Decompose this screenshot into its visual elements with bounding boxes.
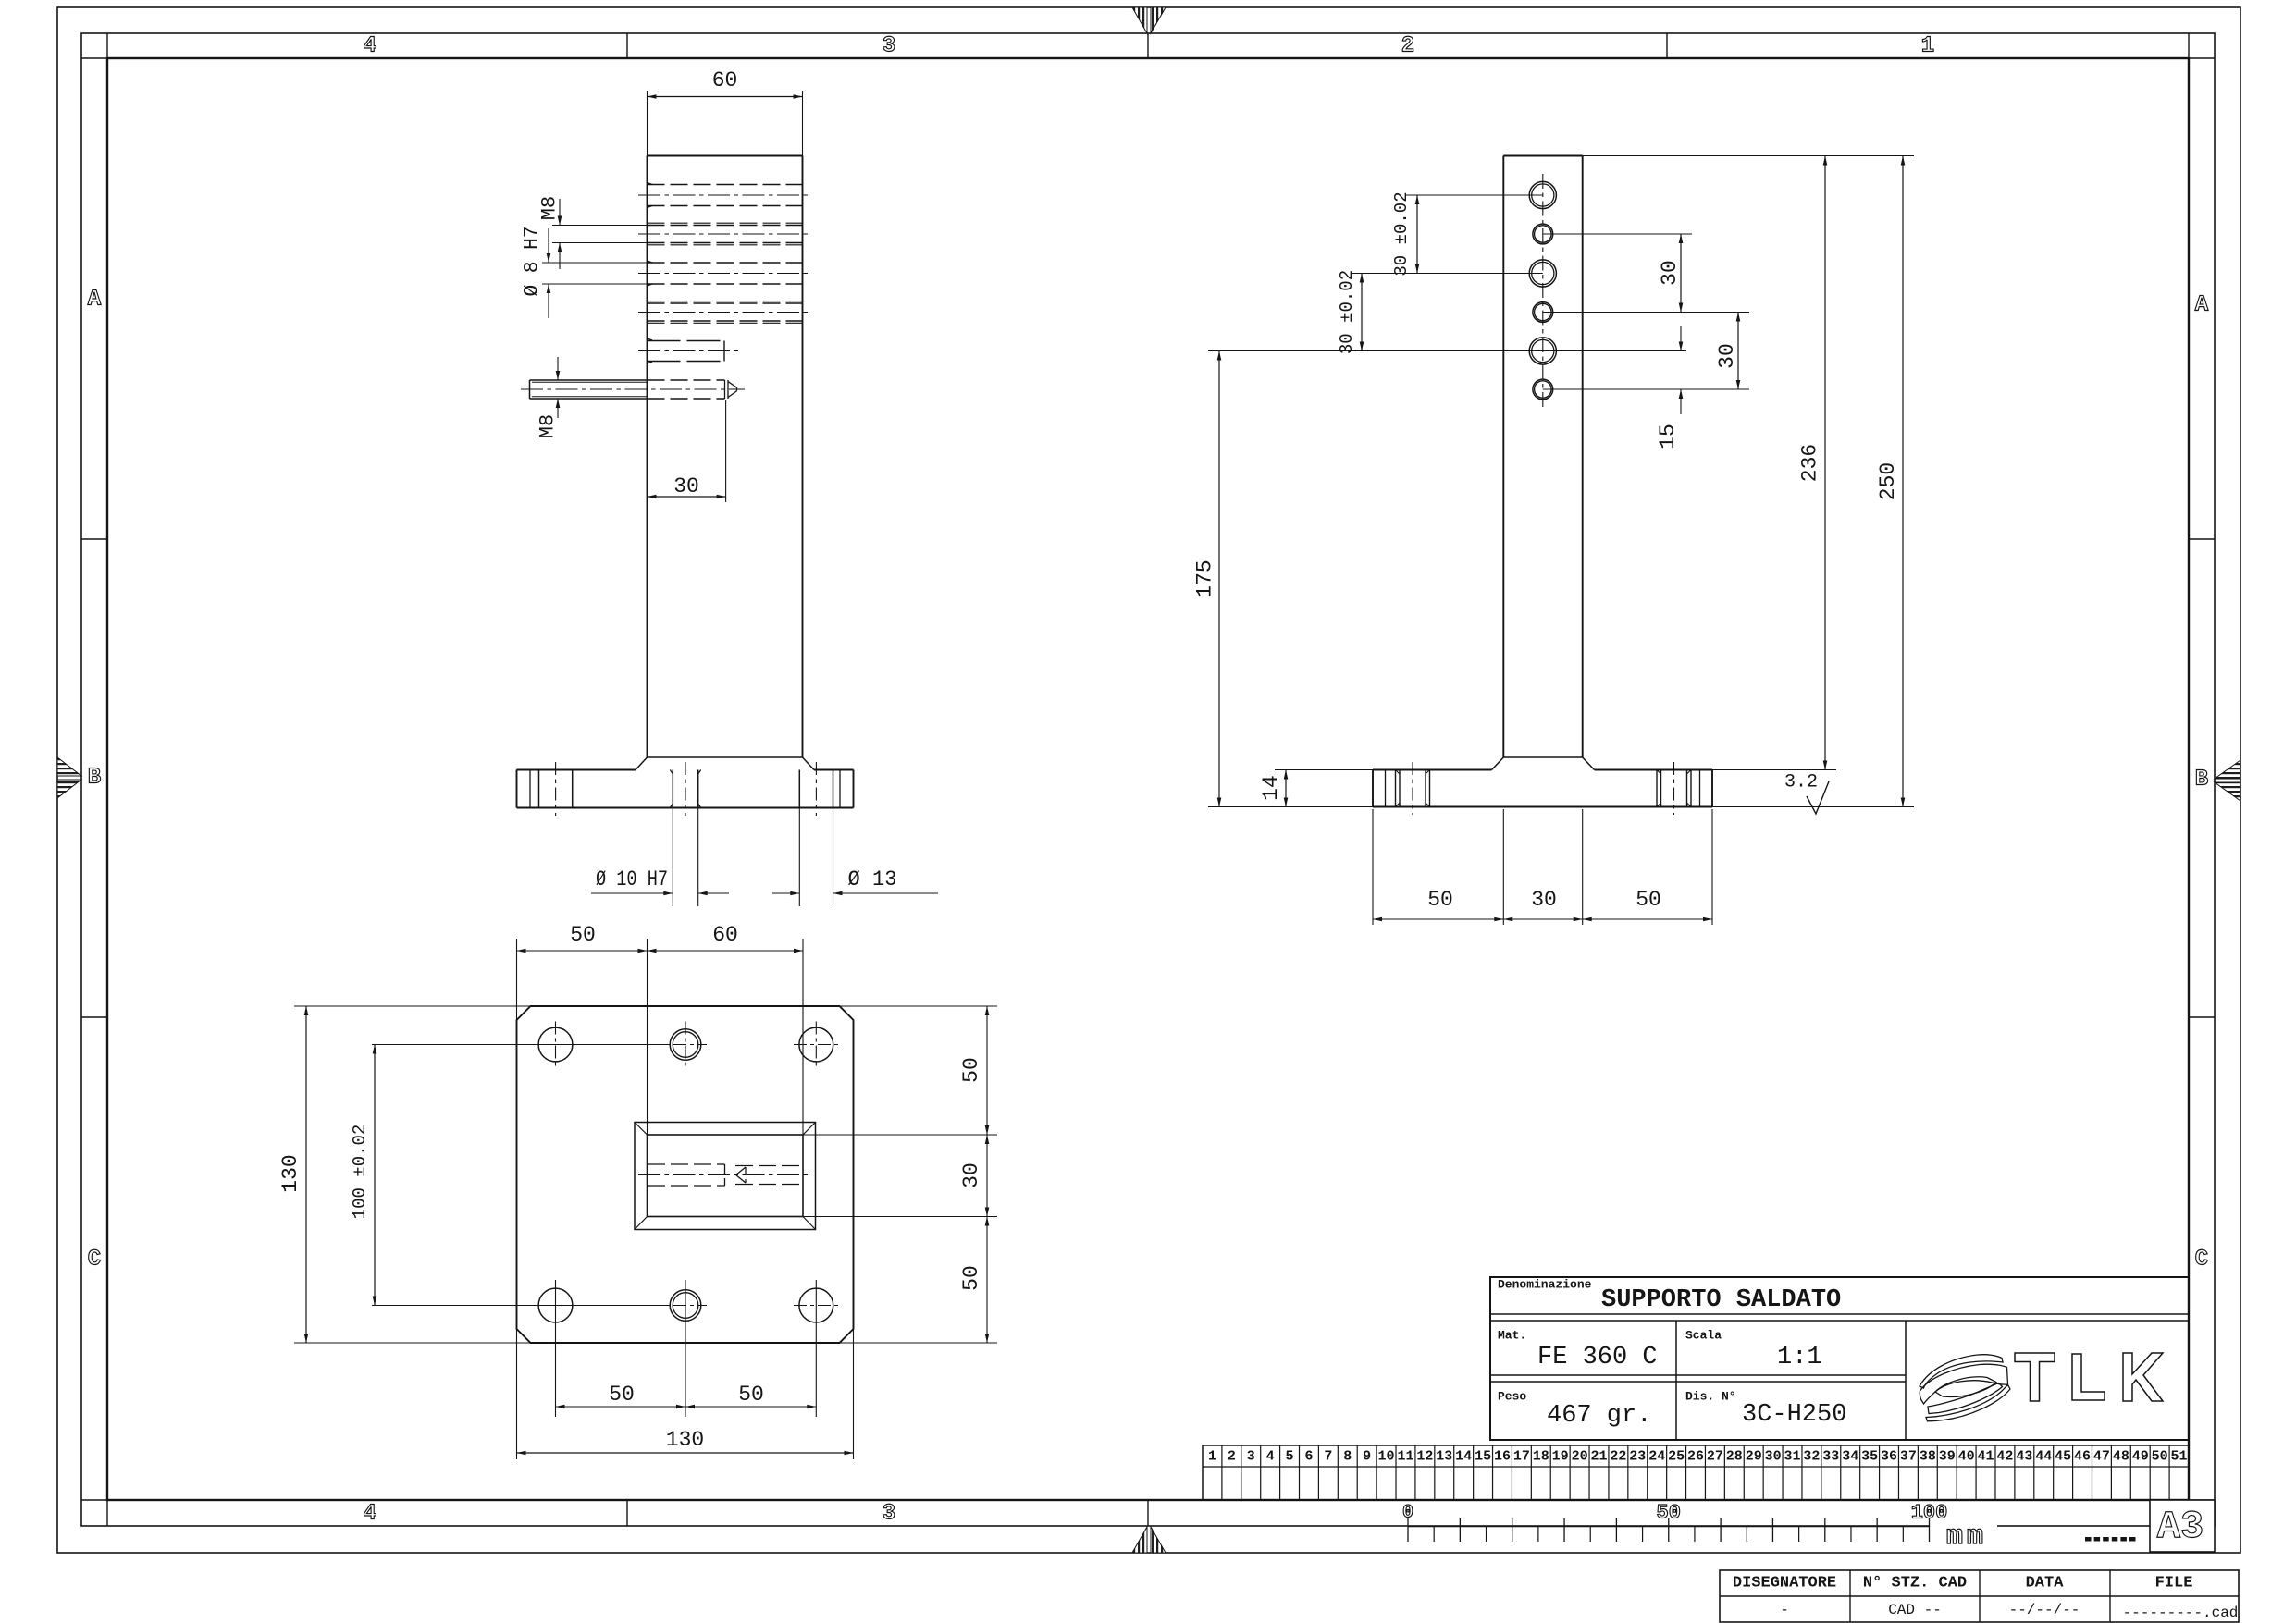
svg-text:3: 3	[1247, 1449, 1255, 1465]
svg-text:25: 25	[1668, 1449, 1685, 1465]
svg-text:30: 30	[1531, 888, 1557, 912]
side view: dim 30 +-0.02 rows3-5	[1361, 274, 1363, 351]
svg-text:17: 17	[1513, 1449, 1530, 1465]
svg-text:130: 130	[666, 1428, 704, 1452]
svg-text:42: 42	[1996, 1449, 2013, 1465]
side view: weld collar	[1503, 756, 1582, 758]
svg-text:30: 30	[1765, 1449, 1782, 1465]
svg-text:38: 38	[1920, 1449, 1936, 1465]
svg-text:50: 50	[570, 923, 596, 947]
svg-text:FE 360 C: FE 360 C	[1537, 1344, 1658, 1371]
plan view: boss inner column section	[648, 1135, 804, 1217]
svg-text:41: 41	[1978, 1449, 1994, 1465]
side view: extension lines from holes	[1406, 194, 1543, 196]
plan view: hidden blind hole in boss	[648, 1163, 725, 1165]
svg-text:Dis. N°: Dis. N°	[1685, 1390, 1736, 1404]
svg-text:24: 24	[1648, 1449, 1665, 1465]
front view: flange outline	[517, 769, 636, 771]
plan view: dims 50 30 50 right	[840, 1005, 998, 1007]
svg-text:50: 50	[738, 1383, 764, 1407]
svg-text:-: -	[1780, 1602, 1789, 1618]
front view: column outline	[648, 155, 803, 157]
svg-text:2: 2	[1401, 34, 1414, 59]
svg-text:5: 5	[1286, 1449, 1294, 1465]
svg-text:50: 50	[959, 1057, 983, 1083]
front view: flange hole D13 left	[538, 770, 540, 808]
TLK logo letter K	[2123, 1353, 2163, 1401]
svg-text:22: 22	[1610, 1449, 1626, 1465]
svg-text:Mat.: Mat.	[1498, 1329, 1526, 1343]
svg-text:47: 47	[2093, 1449, 2110, 1465]
svg-text:A3: A3	[2157, 1505, 2203, 1549]
svg-text:14: 14	[1455, 1449, 1472, 1465]
number strip 1-51	[1203, 1445, 2189, 1500]
plan view: hidden set screw in boss	[735, 1165, 803, 1167]
svg-text:29: 29	[1746, 1449, 1762, 1465]
plan view: holes	[538, 1027, 573, 1062]
svg-text:40: 40	[1958, 1449, 1975, 1465]
mat/peso divider (double)	[1490, 1374, 1906, 1376]
svg-text:19: 19	[1552, 1449, 1569, 1465]
plan view: dim 100 +-0.02	[374, 1045, 376, 1306]
svg-text:100 ±0.02: 100 ±0.02	[350, 1125, 370, 1220]
drawing info table	[1720, 1570, 2239, 1622]
svg-text:250: 250	[1876, 462, 1900, 500]
svg-text:20: 20	[1572, 1449, 1588, 1465]
plan view: plate outline with chamfered corners	[517, 1006, 854, 1343]
svg-text:4: 4	[364, 1502, 376, 1527]
side view: dim 30 +-0.02 rows1-3	[1416, 195, 1418, 274]
svg-text:35: 35	[1861, 1449, 1878, 1465]
svg-text:37: 37	[1900, 1449, 1917, 1465]
plan view: hole centerlines	[372, 1044, 670, 1046]
svg-text:30: 30	[673, 474, 699, 498]
svg-text:45: 45	[2055, 1449, 2071, 1465]
svg-text:3.2: 3.2	[1784, 772, 1818, 793]
svg-text:Ø 10 H7: Ø 10 H7	[596, 867, 668, 891]
front view: flange hole D13 right	[798, 770, 800, 808]
svg-text:A: A	[2195, 293, 2209, 318]
svg-text:46: 46	[2074, 1449, 2091, 1465]
svg-text:2: 2	[1228, 1449, 1236, 1465]
front view: callout M8 row2	[552, 225, 648, 227]
svg-text:1: 1	[1208, 1449, 1216, 1465]
svg-text:N° STZ. CAD: N° STZ. CAD	[1863, 1575, 1967, 1592]
svg-text:27: 27	[1707, 1449, 1723, 1465]
svg-text:---------.cad: ---------.cad	[2123, 1605, 2239, 1621]
svg-text:23: 23	[1629, 1449, 1646, 1465]
front view: dim 30 screw depth	[725, 400, 727, 502]
svg-text:SUPPORTO SALDATO: SUPPORTO SALDATO	[1601, 1286, 1841, 1314]
front view: dim D10H7 under flange	[672, 808, 673, 907]
zone dividers top band	[626, 33, 628, 58]
dim 50 / 60 between views	[516, 939, 518, 1021]
svg-text:--/--/--: --/--/--	[2009, 1602, 2080, 1618]
svg-text:DATA: DATA	[2026, 1575, 2065, 1592]
front view: dim D13 under flange	[798, 808, 800, 907]
centering mark top	[1132, 7, 1147, 33]
svg-text:30 ±0.02: 30 ±0.02	[1391, 191, 1412, 276]
svg-text:33: 33	[1822, 1449, 1839, 1465]
svg-text:26: 26	[1687, 1449, 1704, 1465]
svg-text:Ø 8 H7: Ø 8 H7	[521, 227, 544, 297]
svg-text:467 gr.: 467 gr.	[1547, 1402, 1651, 1430]
plan view: dim 130 bottom	[516, 1329, 518, 1459]
svg-text:36: 36	[1881, 1449, 1897, 1465]
title row divider (double)	[1490, 1313, 2189, 1315]
svg-text:9: 9	[1363, 1449, 1371, 1465]
plan view: dims 50 50 bottom	[556, 1406, 817, 1408]
svg-text:CAD --: CAD --	[1888, 1602, 1942, 1618]
svg-text:A: A	[88, 288, 102, 313]
svg-text:3C-H250: 3C-H250	[1742, 1401, 1846, 1429]
side view: flange corner chamfer lines	[1385, 770, 1387, 807]
svg-text:14: 14	[1259, 775, 1283, 801]
svg-text:39: 39	[1939, 1449, 1956, 1465]
svg-text:1: 1	[1921, 34, 1934, 59]
svg-text:mm: mm	[1946, 1521, 1987, 1553]
svg-text:30: 30	[1658, 260, 1682, 286]
svg-text:3: 3	[883, 34, 895, 59]
svg-text:11: 11	[1397, 1449, 1413, 1465]
vertical divider mat|scala	[1675, 1321, 1677, 1440]
svg-text:60: 60	[712, 923, 738, 947]
svg-text:8: 8	[1343, 1449, 1352, 1465]
zone dividers left band	[81, 538, 107, 540]
svg-text:30 ±0.02: 30 ±0.02	[1337, 270, 1357, 354]
svg-text:10: 10	[1378, 1449, 1395, 1465]
svg-text:B: B	[2195, 768, 2208, 793]
side view: counterbored hole right	[1656, 770, 1658, 807]
svg-text:15: 15	[1656, 424, 1680, 449]
svg-text:12: 12	[1416, 1449, 1433, 1465]
svg-text:18: 18	[1533, 1449, 1549, 1465]
vertical divider scala|logo	[1905, 1321, 1907, 1440]
svg-text:49: 49	[2132, 1449, 2149, 1465]
side view: dim 30 rows2-4	[1680, 234, 1682, 313]
svg-text:4: 4	[1266, 1449, 1275, 1465]
svg-text:B: B	[88, 766, 101, 791]
svg-text:13: 13	[1436, 1449, 1452, 1465]
front view: hidden hole row 2 (M8 tapped through)	[648, 225, 803, 227]
front view: dim 60 top	[647, 91, 648, 156]
TLK logo letter L	[2072, 1354, 2105, 1400]
side view: dim 15 rows5-6	[1680, 326, 1682, 351]
plan view: dim 130 left	[294, 1005, 531, 1007]
svg-text:6: 6	[1304, 1449, 1313, 1465]
svg-text:1:1: 1:1	[1777, 1344, 1822, 1371]
centering mark right	[2215, 760, 2240, 779]
svg-text:34: 34	[1842, 1449, 1858, 1465]
svg-text:30: 30	[959, 1162, 983, 1188]
plan view: boss outer weld outline	[635, 1123, 816, 1230]
svg-text:Ø 13: Ø 13	[848, 867, 897, 891]
title block outer box	[1490, 1277, 2189, 1440]
side view: dim 14 flange thickness	[1275, 769, 1373, 771]
TLK logo swoosh	[1920, 1355, 2003, 1388]
front view: callout D8H7 row3	[542, 262, 648, 264]
side view: dims 50 30 50 bottom	[1372, 809, 1374, 925]
svg-text:DISEGNATORE: DISEGNATORE	[1733, 1575, 1836, 1592]
side view: dim 175	[1208, 806, 1373, 808]
svg-text:4: 4	[364, 34, 376, 59]
zone band corner segments	[81, 57, 107, 59]
svg-text:50: 50	[1427, 888, 1453, 912]
svg-text:7: 7	[1324, 1449, 1332, 1465]
svg-text:31: 31	[1784, 1449, 1801, 1465]
dashes placeholder	[2085, 1537, 2092, 1542]
front view: M8 set screw row 6	[530, 379, 648, 381]
svg-text:100: 100	[1911, 1502, 1948, 1525]
side view: dim 250	[1712, 806, 1914, 808]
scale ruler	[1930, 1519, 1997, 1532]
centering mark left	[57, 757, 81, 776]
svg-text:60: 60	[712, 68, 738, 92]
svg-text:Denominazione: Denominazione	[1498, 1278, 1592, 1292]
svg-text:175: 175	[1193, 559, 1217, 597]
svg-text:50: 50	[959, 1265, 983, 1291]
svg-text:21: 21	[1590, 1449, 1607, 1465]
svg-text:15: 15	[1475, 1449, 1491, 1465]
svg-text:50: 50	[1657, 1502, 1681, 1525]
svg-text:130: 130	[278, 1154, 302, 1192]
svg-text:16: 16	[1494, 1449, 1511, 1465]
side view: vertical centerline through holes	[1542, 174, 1544, 411]
front view: hidden blind hole row 5 (D8H7 x30)	[648, 340, 725, 342]
svg-text:FILE: FILE	[2155, 1575, 2193, 1592]
front view: flange hole D10H7 center	[672, 770, 673, 808]
front view: hidden hole row 1 (D8H7 through)	[648, 184, 803, 186]
side view: hole circles	[1529, 181, 1556, 208]
svg-text:Scala: Scala	[1685, 1329, 1722, 1343]
svg-text:30: 30	[1715, 343, 1739, 369]
TLK logo letter T	[2015, 1353, 2055, 1401]
side view: column outline	[1503, 155, 1582, 157]
svg-text:50: 50	[2152, 1449, 2168, 1465]
zone dividers bottom band	[626, 1500, 628, 1526]
svg-text:M8: M8	[537, 414, 560, 438]
side view: dim 30 rows4-6	[1737, 313, 1739, 390]
svg-text:C: C	[88, 1248, 101, 1273]
svg-text:M8: M8	[538, 196, 562, 220]
svg-text:0: 0	[1402, 1503, 1413, 1524]
zone dividers right band	[2189, 538, 2215, 540]
svg-text:32: 32	[1803, 1449, 1820, 1465]
svg-text:3: 3	[883, 1502, 895, 1527]
svg-text:50: 50	[1636, 888, 1661, 912]
svg-text:236: 236	[1798, 444, 1822, 482]
svg-text:28: 28	[1726, 1449, 1743, 1465]
front view: weld collar	[648, 756, 803, 758]
svg-text:50: 50	[609, 1383, 635, 1407]
side view: counterbored hole left	[1395, 770, 1397, 807]
svg-text:44: 44	[2035, 1449, 2052, 1465]
centering mark bottom	[1132, 1527, 1147, 1553]
svg-text:48: 48	[2113, 1449, 2129, 1465]
front view: hidden hole row 4 (M8 tapped through)	[648, 302, 803, 304]
A3 format box	[2150, 1500, 2215, 1552]
front view: callout M8 set screw	[557, 357, 559, 380]
front view: hidden hole row 3 (D8H7 through)	[648, 262, 803, 264]
svg-text:43: 43	[2016, 1449, 2032, 1465]
svg-text:51: 51	[2171, 1449, 2188, 1465]
svg-text:Peso: Peso	[1498, 1390, 1526, 1404]
side view: flange outline	[1373, 769, 1492, 771]
side view: dim 236	[1583, 155, 1914, 157]
front view: flange corner chamfer lines	[529, 770, 531, 808]
plan view: boss corner diagonals	[635, 1123, 648, 1136]
svg-text:C: C	[2195, 1248, 2208, 1273]
